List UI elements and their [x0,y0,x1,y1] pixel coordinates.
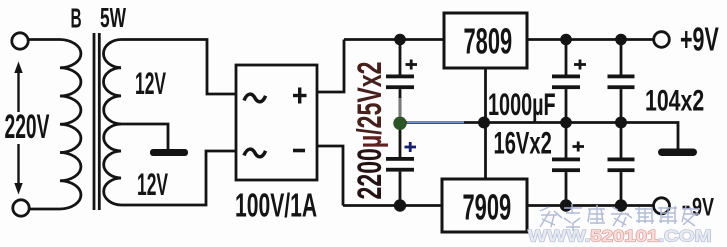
junction dot top rail C5 [615,34,627,46]
capacitor C4 plates [552,158,580,173]
terminal J1 top-left input [12,33,28,49]
wire secondary bottom to bridge [121,151,236,205]
ground center tap [150,149,188,156]
svg-text:9V: 9V [692,193,714,222]
wire top rail right [527,38,654,41]
capacitor C3 plates [552,75,580,90]
capacitor C3 top 1000uF lead [565,40,568,123]
transformer T1 core [94,33,99,210]
label -9V [683,193,715,222]
svg-text:B: B [71,3,82,34]
wire secondary top to bridge [121,40,236,95]
junction dot mid rail regulators [478,117,490,129]
capacitor C1 top 2200u lead [399,40,402,123]
svg-text:7909: 7909 [463,188,512,228]
svg-text:2200µ/25Vx2: 2200µ/25Vx2 [352,62,389,200]
wire ground mid rail [400,123,678,150]
capacitor C1 plus sign [406,60,418,70]
junction dot bottom rail C2 [394,199,406,211]
capacitor C1 plates [386,75,414,90]
svg-text:220V: 220V [5,107,50,145]
svg-text:1000µF: 1000µF [488,86,556,122]
junction dot top rail C1 [394,34,406,46]
wire bridge minus output to bottom rail [317,146,343,206]
regulator U1 7809 box [444,13,527,68]
capacitor C4 plus sign [573,142,585,152]
watermark chinese characters [540,204,700,231]
bridge rectifier D1 [236,65,317,180]
wire bridge plus output to top rail [317,40,344,93]
wire center tap [121,124,168,149]
svg-text:7809: 7809 [464,22,513,62]
svg-text:5W: 5W [100,2,126,33]
arrow up (220V dimension) [14,62,22,113]
wire 7809 ground pin [484,68,487,123]
junction dot bottom rail C4 [560,199,572,211]
capacitor C3 plus sign [574,60,586,70]
junction dot top rail C3 [560,34,572,46]
wire bottom-left terminal to primary [29,208,60,211]
regulator U2 7909 box [442,179,527,232]
arrow down (220V dimension) [14,144,22,195]
svg-text:12V: 12V [137,168,168,203]
bridge minus sign [293,149,305,153]
bridge plus sign [293,88,307,104]
capacitor C2 bottom 2200u lead [399,123,402,206]
capacitor C2 plates [386,157,414,172]
wire 7909 ground pin [484,123,487,180]
capacitor C4 bottom 1000uF lead [565,123,568,206]
transformer T1 secondary winding bottom 12V [104,124,121,205]
junction dot mid rail C5C6 [615,117,627,129]
wire top rail left [344,38,444,41]
svg-text:WWW.520101.COM: WWW.520101.COM [528,226,712,245]
capacitor C2 plus sign [405,142,417,152]
wire bottom rail right [527,204,654,207]
svg-text:100V/1A: 100V/1A [235,187,317,224]
svg-text:104x2: 104x2 [645,83,704,118]
svg-text:12V: 12V [135,67,166,102]
bridge AC symbol top [244,94,266,102]
junction dot mid rail C3C4 [560,117,572,129]
capacitor C5 top 104 lead [620,40,623,123]
terminal +9V [654,32,670,48]
terminal J2 bottom-left input [13,200,29,216]
wire blue artifact segment [407,121,464,123]
transformer T1 primary winding [60,40,81,210]
bridge AC symbol bottom [244,149,266,157]
junction dot bottom rail C6 [615,199,627,211]
capacitor C6 bottom 104 lead [620,123,623,206]
wire top-left terminal to primary [28,38,60,41]
terminal -9V [654,198,670,214]
junction dot mid rail green [393,117,406,130]
capacitor C5 plates [608,75,635,90]
svg-text:+9V: +9V [680,21,719,58]
transformer T1 secondary winding top 12V [103,40,121,125]
ground right [658,149,697,157]
capacitor C6 plates [608,158,635,173]
svg-text:16Vx2: 16Vx2 [494,125,552,161]
wire bottom rail left [343,204,442,207]
